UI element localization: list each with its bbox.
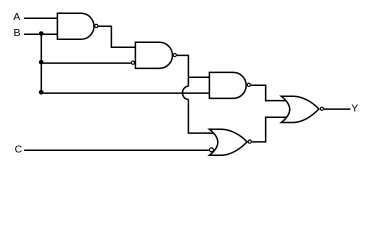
wire U3 output to U5 top input (250, 85, 287, 100)
nand gate U2 (135, 42, 172, 68)
U2 inverted input bubble (131, 61, 134, 64)
wire A to U1 top input (24, 17, 57, 19)
U4 output bubble (248, 140, 251, 143)
wire U1 output to U2 top input (98, 26, 135, 47)
svg-text:Y: Y (351, 103, 358, 115)
wire branch to U3 top input (188, 76, 209, 78)
wire U2 output right and down (177, 55, 189, 86)
U1 output bubble (95, 24, 98, 27)
wire C to U4 inverted input (24, 149, 209, 151)
nor gate U5 (281, 96, 319, 122)
svg-text:C: C (15, 143, 23, 155)
wire B branch to U3 bottom input (41, 92, 209, 94)
U2 output bubble (173, 53, 176, 56)
U4 inverted input bubble (210, 148, 214, 152)
nor gate U4 (209, 129, 247, 155)
wire B branch to U2 inverted input (41, 62, 131, 64)
wire U5 output to Y (324, 108, 350, 110)
U5 output bubble (320, 107, 323, 110)
U3 output bubble (247, 83, 250, 86)
wire U4 output to U5 bottom input (252, 117, 287, 142)
junction dot at B column / U3 input branch (39, 90, 44, 95)
wire B to U1 bottom input (24, 33, 57, 35)
junction dot on B wire (39, 31, 44, 36)
nand gate U1 (57, 13, 94, 39)
junction dot at B column / U2 input branch (39, 60, 44, 65)
wire hop over B branch line (183, 86, 189, 99)
svg-text:A: A (13, 11, 20, 23)
wire continues down to U4 top input (188, 99, 214, 133)
wire B vertical column (40, 34, 42, 93)
nand gate U3 (209, 72, 246, 98)
svg-text:B: B (14, 27, 21, 39)
